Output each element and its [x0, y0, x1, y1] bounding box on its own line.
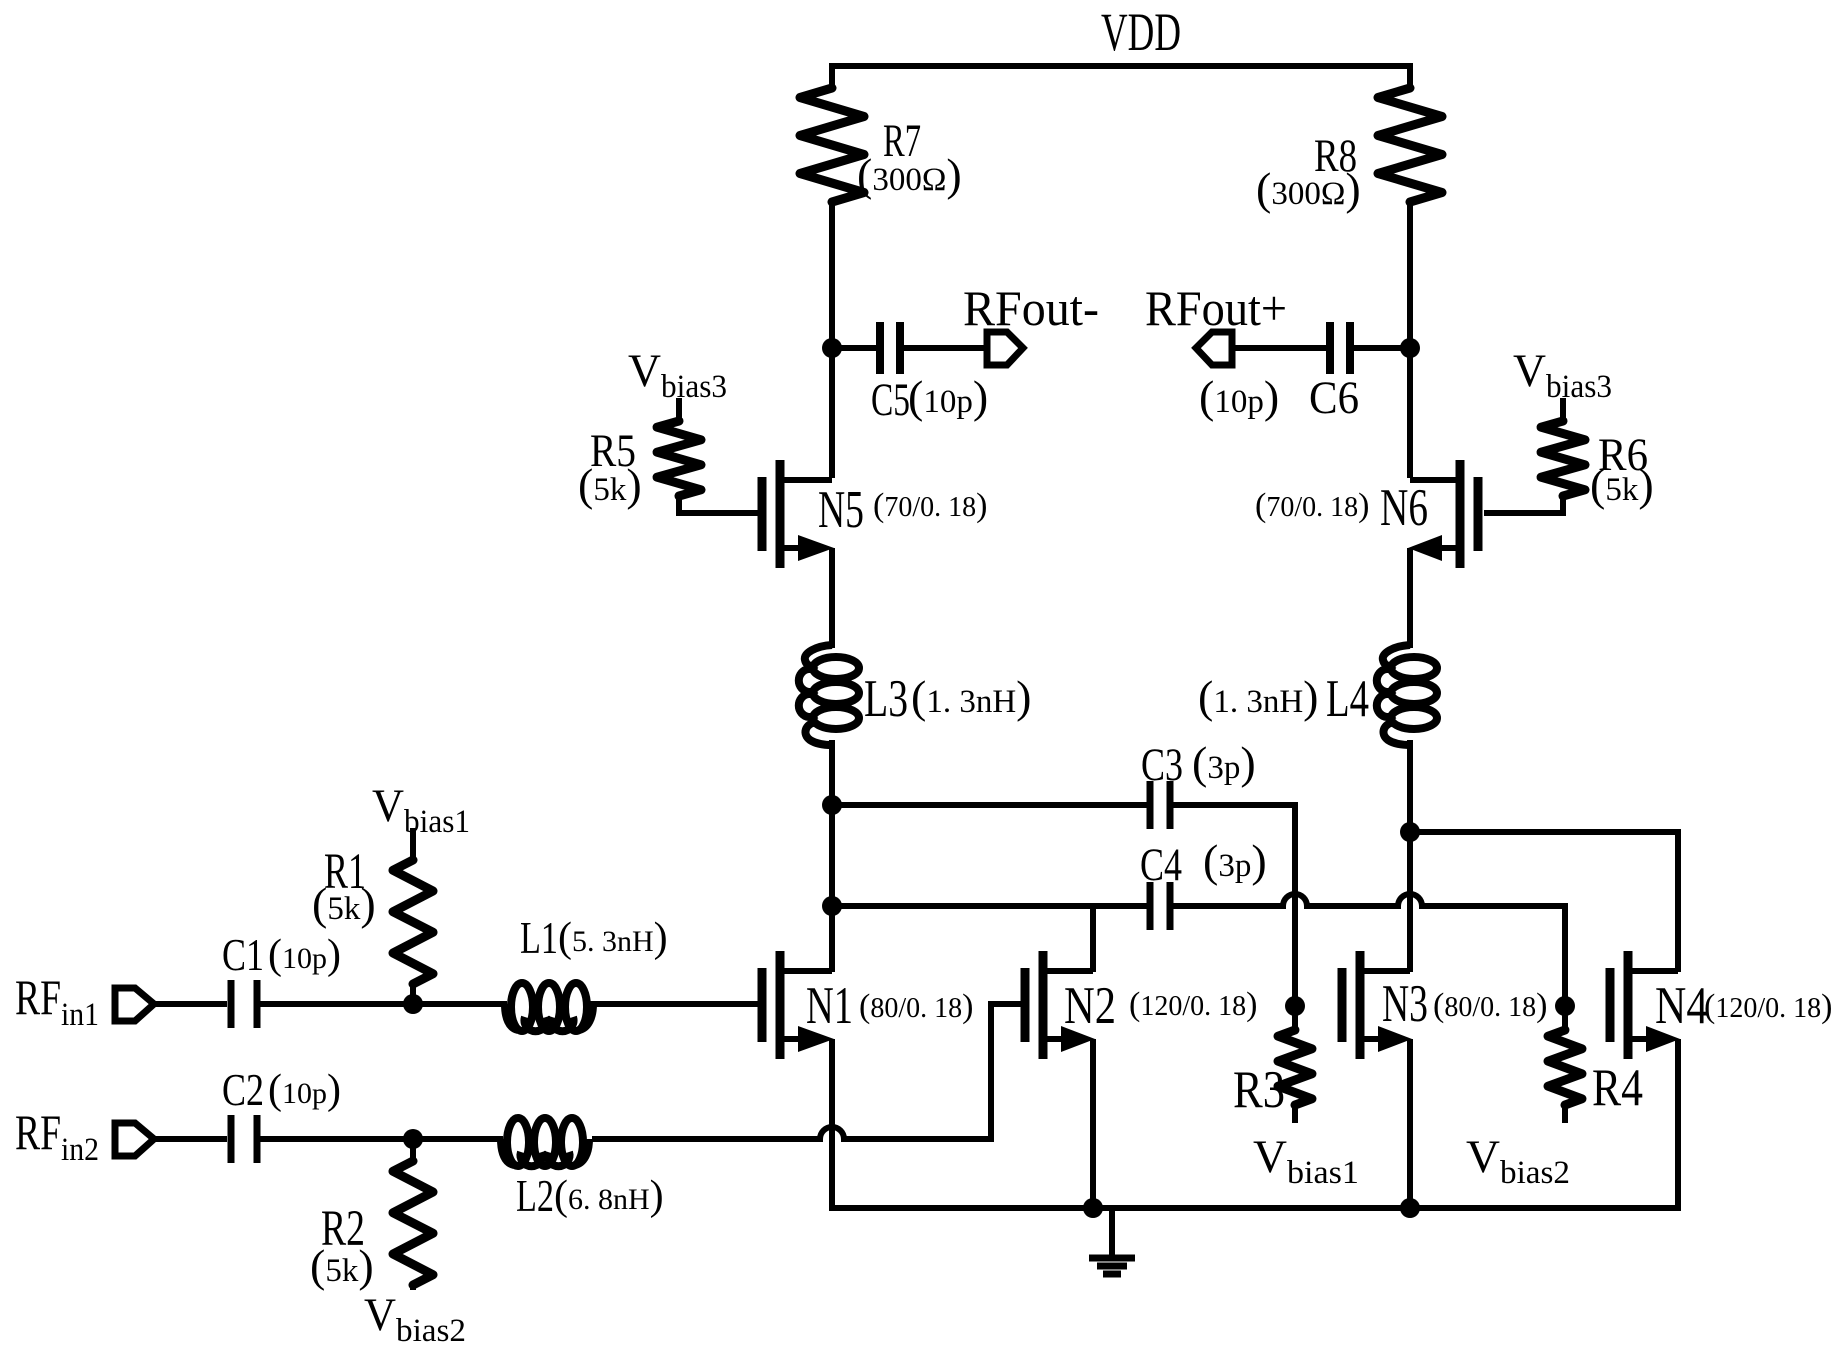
svg-text:R4: R4 — [1592, 1059, 1643, 1117]
svg-text:V: V — [1466, 1131, 1500, 1183]
inductor L4 — [1198, 645, 1437, 745]
wire cross couple top right — [1410, 832, 1678, 972]
svg-text:V: V — [1253, 1131, 1287, 1183]
node dot N3 gate — [1285, 996, 1305, 1016]
wire VDD stub left — [829, 63, 835, 88]
resistor R1 — [312, 844, 433, 1004]
svg-text:L2: L2 — [516, 1170, 554, 1221]
wire N2 drain riser — [1090, 906, 1096, 972]
resistor R5 — [578, 421, 701, 510]
svg-text:bias3: bias3 — [1546, 369, 1612, 405]
resistor R6 — [1541, 421, 1654, 510]
svg-text:V: V — [364, 1289, 396, 1341]
svg-text:C1: C1 — [222, 929, 264, 980]
port RFin2 — [15, 1104, 154, 1168]
svg-text:(120/0. 18): (120/0. 18) — [1704, 988, 1832, 1025]
transistor N4 — [1610, 951, 1832, 1059]
node dot N4 gate — [1555, 996, 1575, 1016]
node dot left output — [822, 338, 842, 358]
transistor N2 — [1025, 951, 1257, 1059]
svg-text:R3: R3 — [1233, 1061, 1285, 1119]
svg-text:bias2: bias2 — [396, 1313, 466, 1349]
wire C5 left lead — [832, 345, 877, 351]
wire N1 source down — [829, 1039, 835, 1211]
wire C2 to L2 — [260, 1136, 503, 1142]
inductor L3 — [799, 645, 1032, 745]
ground — [1089, 1208, 1135, 1274]
svg-text:RF: RF — [15, 1104, 61, 1160]
capacitor C3 — [1141, 737, 1256, 829]
svg-text:V: V — [372, 780, 404, 832]
transistor N1 — [762, 951, 973, 1059]
port RFout+ — [1145, 280, 1287, 365]
transistor N5 — [762, 460, 987, 568]
svg-text:RFout+: RFout+ — [1145, 280, 1287, 336]
svg-text:in1: in1 — [61, 997, 99, 1033]
svg-text:N5: N5 — [818, 481, 864, 539]
svg-text:V: V — [1513, 345, 1546, 397]
node dot R2 tap — [403, 1129, 423, 1149]
wire RFin2 to C2 — [152, 1136, 227, 1142]
svg-text:RF: RF — [15, 969, 61, 1025]
wire source rail — [832, 1205, 1678, 1211]
port RFin1 — [15, 969, 154, 1033]
resistor R7 — [800, 88, 962, 202]
inductor L1 — [505, 912, 668, 1031]
wire R5 to N5 gate — [679, 494, 758, 513]
power label Vbias3 right — [1513, 345, 1612, 405]
transistor N3 — [1342, 951, 1547, 1059]
resistor R8 — [1256, 88, 1442, 214]
svg-text:(80/0. 18): (80/0. 18) — [1433, 987, 1547, 1024]
svg-text:N1: N1 — [806, 977, 853, 1035]
svg-text:L1: L1 — [520, 912, 558, 963]
wire C6 to right rail — [1353, 345, 1410, 351]
svg-text:N3: N3 — [1382, 975, 1428, 1033]
resistor R3 — [1233, 1006, 1312, 1123]
svg-text:(70/0. 18): (70/0. 18) — [1255, 487, 1369, 524]
port RFout- — [963, 280, 1099, 365]
node dot right output — [1400, 338, 1420, 358]
wire N5 source to L3 — [829, 548, 835, 648]
wire N6 source to L4 — [1407, 548, 1413, 648]
wire R6 to N6 gate — [1484, 494, 1563, 513]
wire right vertical to N3 drain — [1407, 832, 1413, 972]
wire RFout+ to C6 — [1231, 345, 1327, 351]
wire VDD rail — [829, 63, 1412, 69]
power label Vbias3 left — [628, 345, 727, 405]
svg-text:C4: C4 — [1140, 839, 1182, 891]
svg-text:bias2: bias2 — [1500, 1155, 1570, 1191]
svg-text:in2: in2 — [61, 1132, 99, 1168]
node dot L4 bottom — [1400, 822, 1420, 842]
wire C3 left lead — [832, 802, 1147, 808]
wire C3 right to N3 gate node — [1173, 805, 1295, 1006]
wire L2 to N2 gate with hop — [592, 1004, 1027, 1139]
capacitor C2 — [222, 1064, 341, 1163]
wire N2 source down — [1090, 1039, 1096, 1208]
wire N3 source down — [1407, 1039, 1413, 1208]
svg-text:C6: C6 — [1309, 372, 1359, 424]
capacitor C4 — [1140, 835, 1267, 930]
wire C5 to RFout- — [903, 345, 988, 351]
capacitor C6 — [1199, 322, 1359, 424]
node dot C4 tap — [822, 896, 842, 916]
node dot R1 tap — [403, 994, 423, 1014]
power label Vbias2 bottom left — [364, 1289, 466, 1349]
resistor R2 — [310, 1139, 433, 1291]
svg-text:L3: L3 — [864, 670, 908, 728]
wire C4 right with hops to N4 gate node — [1173, 894, 1565, 1006]
wire C1 to L1 — [260, 1001, 507, 1007]
node dot N3 source rail — [1400, 1198, 1420, 1218]
svg-text:N6: N6 — [1380, 479, 1428, 537]
wire RFin1 to C1 — [152, 1001, 227, 1007]
svg-text:R7: R7 — [883, 115, 921, 167]
net label VDD — [1101, 2, 1181, 62]
wire N1 drain feed — [829, 906, 835, 972]
power label Vbias1 top — [372, 780, 470, 840]
svg-text:VDD: VDD — [1101, 2, 1181, 62]
svg-text:C3: C3 — [1141, 739, 1183, 791]
power label Vbias2 bottom right — [1466, 1131, 1570, 1191]
inductor L2 — [501, 1118, 664, 1221]
capacitor C5 — [871, 322, 988, 426]
wire Vbias1 stub — [410, 828, 416, 860]
wire C4 left lead — [832, 903, 1147, 909]
svg-text:C5: C5 — [871, 374, 910, 426]
wire Vbias3 stub right — [1560, 398, 1566, 421]
wire R7 to N5 drain — [829, 202, 835, 478]
svg-text:RFout-: RFout- — [963, 280, 1099, 336]
svg-text:N2: N2 — [1064, 977, 1116, 1035]
wire L1 to N1 gate — [590, 1001, 758, 1007]
node dot C3 tap — [822, 795, 842, 815]
wire R8 to N6 drain — [1407, 202, 1413, 478]
svg-text:bias3: bias3 — [661, 369, 727, 405]
power label Vbias1 bottom — [1253, 1131, 1359, 1191]
svg-text:L4: L4 — [1326, 670, 1369, 728]
wire L3 to node — [829, 740, 835, 806]
wire N4 source down — [1675, 1039, 1681, 1211]
svg-text:V: V — [628, 345, 661, 397]
svg-text:(70/0. 18): (70/0. 18) — [873, 487, 987, 524]
wire C3 node segment — [829, 805, 835, 906]
node dot ground — [1083, 1198, 1103, 1218]
capacitor C1 — [222, 929, 341, 1028]
wire VDD stub right — [1407, 63, 1413, 88]
wire L4 to node — [1407, 740, 1413, 833]
svg-text:(120/0. 18): (120/0. 18) — [1129, 986, 1257, 1023]
svg-text:bias1: bias1 — [1287, 1155, 1359, 1191]
transistor N6 — [1255, 460, 1478, 568]
svg-text:(80/0. 18): (80/0. 18) — [859, 988, 973, 1025]
svg-text:C2: C2 — [222, 1064, 264, 1115]
resistor R4 — [1548, 1006, 1643, 1123]
svg-text:N4: N4 — [1655, 977, 1708, 1035]
wire Vbias3 stub left — [676, 398, 682, 421]
